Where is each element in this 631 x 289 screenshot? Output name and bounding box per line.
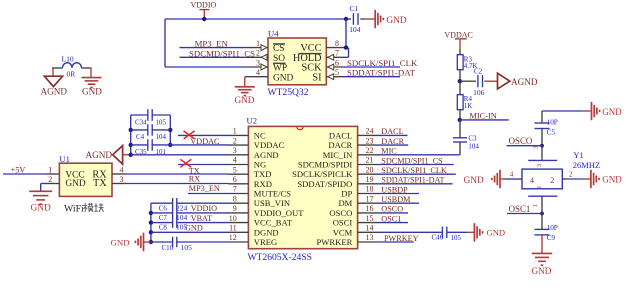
wire U2 pin 17 stub bbox=[358, 194, 378, 203]
capacitor C1 bbox=[346, 4, 361, 34]
svg-text:CS: CS bbox=[273, 44, 284, 54]
svg-text:VDDAC: VDDAC bbox=[254, 140, 285, 150]
wire U1 pin4 stub bbox=[112, 165, 126, 174]
capacitor C34 bbox=[131, 109, 171, 126]
svg-text:24: 24 bbox=[366, 127, 374, 136]
wire U2 pin 1 stub bbox=[229, 127, 249, 136]
svg-text:4: 4 bbox=[233, 156, 237, 165]
svg-text:105: 105 bbox=[451, 234, 462, 242]
wire VCM (pin14) to C46 bbox=[378, 231, 443, 233]
capacitor C6 (pin8) bbox=[151, 198, 229, 212]
svg-text:1: 1 bbox=[233, 127, 237, 136]
svg-text:GND: GND bbox=[235, 95, 255, 105]
ground GND (cap bank) bbox=[111, 233, 144, 252]
svg-text:DM: DM bbox=[338, 198, 352, 208]
svg-text:VDDAC: VDDAC bbox=[444, 30, 472, 39]
wire C2 to AGND bbox=[484, 80, 497, 82]
node SDCLK/SPI1_CLK net (pin 20) bbox=[378, 166, 456, 175]
svg-text:OSC1: OSC1 bbox=[509, 204, 531, 214]
svg-text:GND: GND bbox=[31, 204, 52, 214]
svg-text:MP3_EN: MP3_EN bbox=[195, 39, 229, 49]
wire cap bank right rail bbox=[168, 115, 172, 147]
power VDDIO bbox=[191, 0, 217, 19]
wire AGND to U2 pin3 bbox=[131, 154, 229, 156]
svg-text:20: 20 bbox=[366, 165, 374, 174]
wire U2 pin 10 stub bbox=[229, 214, 249, 223]
svg-text:DGND: DGND bbox=[254, 227, 279, 237]
node OSC1 net (pin 15) bbox=[378, 214, 409, 223]
ground GND (Y1 left) bbox=[464, 170, 501, 188]
svg-text:C10: C10 bbox=[162, 244, 174, 252]
wire U4 pin7 riser bbox=[344, 48, 349, 58]
svg-text:3: 3 bbox=[233, 146, 237, 155]
svg-text:VREG: VREG bbox=[254, 237, 277, 247]
resistor R3 bbox=[457, 55, 477, 70]
svg-text:WT2605X-24SS: WT2605X-24SS bbox=[248, 252, 313, 263]
svg-text:GND: GND bbox=[82, 87, 102, 97]
node VDDAC label (pin2) bbox=[190, 137, 220, 146]
svg-text:DP: DP bbox=[341, 189, 352, 199]
svg-text:AGND: AGND bbox=[86, 150, 113, 160]
wire U2 pin 5 stub bbox=[229, 165, 249, 174]
svg-text:5: 5 bbox=[335, 68, 339, 77]
node MIC-IN bbox=[458, 111, 509, 122]
wire U1.4 to U2.5 (TX) bbox=[126, 173, 229, 175]
power +5V bbox=[11, 165, 26, 174]
svg-text:104: 104 bbox=[468, 143, 479, 151]
wire R4 to MIC node bbox=[459, 110, 461, 120]
svg-text:8: 8 bbox=[335, 39, 339, 48]
svg-text:C2: C2 bbox=[474, 68, 483, 76]
wire U1.3 to U2.6 (RX) bbox=[126, 183, 229, 185]
svg-text:10: 10 bbox=[229, 214, 237, 223]
svg-text:18: 18 bbox=[366, 185, 374, 194]
wire VDDIO left leg to U4 pin3 bbox=[165, 19, 250, 67]
power VDDAC bbox=[444, 30, 472, 54]
node MIC net to C3 bbox=[378, 147, 461, 156]
svg-text:SDCMD/SPI1_CS: SDCMD/SPI1_CS bbox=[381, 156, 443, 165]
wire U4 pin 3 stub bbox=[250, 58, 268, 70]
svg-text:OSC1: OSC1 bbox=[381, 214, 401, 223]
svg-text:15: 15 bbox=[366, 214, 374, 223]
svg-text:GND: GND bbox=[185, 224, 203, 233]
wire U2 pin 16 stub bbox=[358, 204, 378, 213]
svg-text:C8: C8 bbox=[159, 224, 168, 232]
svg-text:Y1: Y1 bbox=[573, 150, 583, 160]
wire C1 to GND bbox=[360, 18, 374, 20]
svg-text:TXD: TXD bbox=[254, 169, 272, 179]
svg-text:C6: C6 bbox=[159, 204, 168, 212]
svg-text:VDDAC: VDDAC bbox=[190, 137, 220, 146]
node MP3_EN (U4 pin1) bbox=[180, 39, 251, 49]
svg-text:NG: NG bbox=[254, 160, 266, 170]
wire VDDIO rail bbox=[165, 18, 346, 20]
svg-text:VBAT: VBAT bbox=[191, 214, 212, 223]
wire U2 pin 23 stub bbox=[358, 136, 378, 145]
wire U1 pin3 stub bbox=[112, 175, 126, 184]
svg-text:3: 3 bbox=[120, 175, 124, 184]
node R3/R4/C2 bbox=[458, 79, 462, 83]
chip U1 designator bbox=[59, 154, 70, 164]
capacitor C10 (pin12) bbox=[151, 237, 229, 253]
svg-text:MIC-IN: MIC-IN bbox=[469, 111, 496, 120]
svg-text:7: 7 bbox=[233, 185, 237, 194]
wire U2 pin 22 stub bbox=[358, 146, 378, 155]
svg-text:21: 21 bbox=[366, 156, 374, 165]
svg-text:MIC: MIC bbox=[381, 147, 397, 156]
svg-text:GND: GND bbox=[464, 176, 485, 186]
svg-text:VCM: VCM bbox=[333, 227, 353, 237]
wire +5V to U1 pin1 bbox=[3, 173, 46, 175]
wire bank rail to GND bbox=[144, 241, 151, 243]
svg-text:6: 6 bbox=[233, 175, 237, 184]
svg-text:GND: GND bbox=[111, 237, 130, 247]
svg-text:1: 1 bbox=[536, 186, 543, 189]
wire C5 to GND bbox=[542, 110, 591, 112]
ground GND (U4) bbox=[235, 87, 255, 105]
svg-text:105: 105 bbox=[181, 243, 193, 252]
svg-text:MP3_EN: MP3_EN bbox=[189, 184, 220, 193]
capacitor C5 bbox=[535, 111, 558, 145]
wire U2 pin 12 stub bbox=[229, 233, 249, 242]
svg-text:3: 3 bbox=[533, 146, 540, 149]
wire U2 pin 20 stub bbox=[358, 165, 378, 174]
chip U4 body bbox=[268, 38, 326, 85]
svg-text:+5V: +5V bbox=[11, 165, 26, 174]
svg-text:GND: GND bbox=[487, 227, 506, 237]
svg-text:U2: U2 bbox=[247, 115, 258, 125]
wire U4 pin 4 stub bbox=[250, 68, 268, 77]
svg-text:TX: TX bbox=[93, 178, 107, 189]
svg-text:DACR: DACR bbox=[328, 140, 352, 150]
svg-text:VDDIO_OUT: VDDIO_OUT bbox=[254, 208, 304, 218]
node RX label (pin6) bbox=[189, 175, 200, 184]
wire U1 pin2 stub bbox=[41, 175, 60, 184]
node PWRKEY net (pin 13) bbox=[378, 234, 419, 243]
svg-text:WP: WP bbox=[273, 64, 287, 74]
wire U2 pin 3 stub bbox=[229, 146, 249, 155]
wire U2 pin 19 stub bbox=[358, 175, 378, 184]
wire U4 pin 7 stub bbox=[326, 49, 344, 61]
svg-text:C34: C34 bbox=[135, 118, 147, 126]
svg-text:DACL: DACL bbox=[381, 127, 403, 136]
svg-text:1: 1 bbox=[48, 165, 52, 174]
wire C6 bank rail bbox=[149, 203, 153, 244]
svg-text:GND: GND bbox=[386, 16, 406, 26]
node SDDAT/SPI1-DAT (U4 pin5) bbox=[344, 68, 416, 78]
chip U2 designator bbox=[247, 115, 258, 125]
svg-text:3: 3 bbox=[256, 58, 260, 67]
node VDDIO label (pin9) + capacitor C7 bbox=[151, 204, 229, 222]
wire U4 pin 8 stub bbox=[326, 39, 344, 48]
svg-text:105: 105 bbox=[156, 118, 167, 126]
svg-text:13: 13 bbox=[366, 233, 374, 242]
svg-text:SI: SI bbox=[312, 72, 322, 83]
svg-text:C1: C1 bbox=[350, 4, 359, 13]
wire U2 pin 14 stub bbox=[358, 224, 378, 233]
svg-text:DACR: DACR bbox=[381, 137, 404, 146]
svg-text:11: 11 bbox=[229, 224, 237, 233]
wire U2 pin 18 stub bbox=[358, 185, 378, 194]
wire U4 pin 6 stub bbox=[326, 58, 344, 70]
svg-text:GND: GND bbox=[65, 179, 86, 189]
capacitor C3 bbox=[453, 120, 479, 155]
svg-text:1K: 1K bbox=[464, 102, 473, 110]
node DACL net (pin 24) bbox=[378, 127, 408, 136]
wire U4 pin8 to VDDIO rail bbox=[344, 19, 348, 50]
node rail to U4 VCC bbox=[344, 17, 348, 21]
svg-text:16: 16 bbox=[366, 204, 374, 213]
node OSCO bbox=[507, 136, 544, 148]
svg-text:12: 12 bbox=[229, 233, 237, 242]
wire Y1 pin4 to GND bbox=[500, 171, 522, 180]
svg-text:4: 4 bbox=[510, 171, 514, 179]
svg-text:4: 4 bbox=[530, 176, 534, 185]
node USBDM net (pin 17) bbox=[378, 195, 420, 204]
svg-text:2: 2 bbox=[256, 49, 260, 58]
svg-text:10P: 10P bbox=[547, 224, 558, 232]
svg-text:SDCMD/SPI1_CS: SDCMD/SPI1_CS bbox=[189, 48, 255, 58]
svg-text:NC: NC bbox=[254, 130, 266, 140]
op-amp U4 designator bbox=[268, 29, 279, 39]
svg-text:C3: C3 bbox=[468, 135, 477, 143]
svg-text:224: 224 bbox=[176, 203, 188, 212]
capacitor C2 bbox=[460, 68, 485, 98]
svg-text:VDDIO: VDDIO bbox=[191, 204, 217, 213]
svg-text:1: 1 bbox=[532, 204, 539, 207]
wire cap bank left rail bbox=[129, 115, 133, 157]
svg-text:AGND: AGND bbox=[41, 87, 68, 97]
wire U4 pin 1 stub bbox=[250, 39, 268, 51]
svg-text:7: 7 bbox=[335, 49, 339, 58]
svg-text:GND: GND bbox=[273, 73, 294, 83]
wire C35 to U2 pin2 (VDDAC) bbox=[153, 144, 229, 146]
svg-text:14: 14 bbox=[366, 224, 374, 233]
ground AGND (left of L10) bbox=[41, 76, 68, 96]
ground GND (C46) bbox=[474, 223, 505, 242]
crystal Y1 bbox=[522, 146, 600, 214]
svg-text:VCC_BAT: VCC_BAT bbox=[254, 218, 293, 228]
node SDCMD/SPI1_CS net (pin 21) bbox=[378, 156, 454, 165]
wire U4 pin4 to ground bbox=[245, 77, 250, 87]
node TX label (pin5) bbox=[189, 166, 200, 175]
wire C46 to GND bbox=[468, 231, 474, 233]
svg-text:C9: C9 bbox=[547, 234, 556, 242]
node VBAT label (pin10) + capacitor C8 bbox=[151, 214, 229, 232]
svg-text:19: 19 bbox=[366, 175, 374, 184]
svg-text:OSCO: OSCO bbox=[381, 205, 403, 214]
svg-text:WiFi: WiFi bbox=[64, 203, 84, 214]
svg-text:0R: 0R bbox=[67, 70, 76, 79]
svg-text:SDDAT/SPIDO: SDDAT/SPIDO bbox=[297, 179, 352, 189]
svg-text:1: 1 bbox=[256, 39, 260, 48]
svg-text:VDDIO: VDDIO bbox=[191, 0, 217, 9]
svg-text:MUTE/CS: MUTE/CS bbox=[254, 189, 291, 199]
svg-text:AGND: AGND bbox=[511, 77, 538, 87]
svg-text:OSCI: OSCI bbox=[333, 218, 353, 228]
wire U2 pin 8 stub bbox=[229, 194, 249, 203]
inductor L10 bbox=[52, 55, 91, 79]
capacitor C35 bbox=[131, 139, 167, 156]
wire Y1 pin2 to GND bbox=[562, 170, 590, 179]
wire U2 pin 24 stub bbox=[358, 127, 378, 136]
wire U2 pin 11 stub bbox=[229, 224, 249, 233]
wire U2 pin 7 stub bbox=[229, 185, 249, 194]
node OSC1 bbox=[507, 204, 544, 215]
svg-text:2: 2 bbox=[550, 176, 554, 185]
node SDCMD/SPI1_CS (U4 pin2) bbox=[180, 48, 256, 58]
wire U4 pin 5 stub bbox=[326, 68, 344, 80]
svg-text:GND: GND bbox=[602, 107, 622, 117]
svg-text:2: 2 bbox=[233, 136, 237, 145]
wire U2 pin 4 stub bbox=[229, 156, 249, 165]
svg-text:C46: C46 bbox=[432, 234, 444, 242]
svg-text:C7: C7 bbox=[159, 214, 168, 222]
svg-text:5: 5 bbox=[233, 165, 237, 174]
svg-text:4: 4 bbox=[120, 165, 124, 174]
svg-text:23: 23 bbox=[366, 136, 374, 145]
node MP3_EN (pin7) bbox=[188, 184, 229, 194]
wire U2 pin 21 stub bbox=[358, 156, 378, 165]
resistor R4 bbox=[457, 81, 472, 110]
svg-text:22: 22 bbox=[366, 146, 374, 155]
svg-text:SDDAT/SPI1-DAT: SDDAT/SPI1-DAT bbox=[347, 68, 416, 78]
node NC X (pin1) bbox=[178, 131, 229, 139]
capacitor C4 bbox=[131, 124, 171, 141]
wire U2 pin 15 stub bbox=[358, 214, 378, 223]
svg-text:PWRKER: PWRKER bbox=[316, 237, 352, 247]
svg-text:SDDAT/SPI1-DAT: SDDAT/SPI1-DAT bbox=[381, 176, 444, 185]
wire AGND to rail bbox=[123, 154, 131, 156]
ground AGND (near U1) bbox=[86, 146, 123, 165]
svg-text:3: 3 bbox=[536, 164, 543, 167]
capacitor C46 bbox=[432, 227, 468, 242]
svg-text:104: 104 bbox=[349, 25, 361, 34]
wire L10 right lead down bbox=[90, 67, 92, 77]
svg-text:AGND: AGND bbox=[254, 150, 279, 160]
svg-text:DACL: DACL bbox=[329, 130, 352, 140]
ground GND (right of L10) bbox=[82, 78, 103, 97]
svg-text:C4: C4 bbox=[136, 133, 145, 141]
svg-text:GND: GND bbox=[602, 175, 622, 185]
wire U2 pin 6 stub bbox=[229, 175, 249, 184]
svg-text:10P: 10P bbox=[547, 118, 558, 126]
svg-text:104: 104 bbox=[156, 133, 167, 141]
ground GND (C9) bbox=[532, 253, 553, 276]
svg-text:SDCMD/SPIDI: SDCMD/SPIDI bbox=[298, 160, 353, 170]
node SDCLK/SPI1_CLK (U4 pin6) bbox=[344, 58, 418, 68]
svg-text:26MHZ: 26MHZ bbox=[573, 160, 600, 170]
svg-text:USBDP: USBDP bbox=[381, 185, 408, 194]
svg-text:8: 8 bbox=[233, 194, 237, 203]
wire U4 pin 2 stub bbox=[250, 49, 268, 61]
wire L10 left lead down bbox=[52, 67, 54, 76]
svg-text:SO: SO bbox=[273, 54, 285, 64]
svg-text:SDCLK/SPI1_CLK: SDCLK/SPI1_CLK bbox=[381, 166, 447, 175]
capacitor C9 bbox=[535, 214, 558, 243]
svg-text:2: 2 bbox=[48, 175, 52, 184]
label WT2605X-24SS bbox=[248, 252, 313, 263]
wire U2 pin 2 stub bbox=[229, 136, 249, 145]
svg-text:USB_VIN: USB_VIN bbox=[254, 198, 291, 208]
chip U2 body bbox=[248, 126, 357, 248]
node USBDP net (pin 18) bbox=[378, 185, 420, 194]
node DACR net (pin 23) bbox=[378, 137, 409, 146]
node GND label (pin11) bbox=[151, 224, 229, 233]
wire C9 to GND bbox=[541, 235, 543, 254]
svg-text:9: 9 bbox=[233, 204, 237, 213]
ground GND (U1) bbox=[29, 191, 52, 213]
svg-text:OSCO: OSCO bbox=[329, 208, 352, 218]
node NG X (pin4) bbox=[178, 159, 229, 167]
chip U1 body bbox=[59, 163, 112, 196]
svg-text:USBDM: USBDM bbox=[381, 195, 411, 204]
svg-text:PWRKEY: PWRKEY bbox=[384, 234, 419, 243]
svg-text:106: 106 bbox=[473, 88, 485, 97]
svg-text:OSCO: OSCO bbox=[509, 136, 533, 146]
node SDDAT/SPI1-DAT net (pin 19) bbox=[378, 176, 453, 185]
svg-text:MIC_IN: MIC_IN bbox=[323, 150, 353, 160]
node OSCO net (pin 16) bbox=[378, 205, 409, 214]
wire U2 pin 9 stub bbox=[229, 204, 249, 213]
label WIFI module bbox=[64, 203, 104, 215]
label WT25Q32 bbox=[268, 87, 309, 98]
svg-text:6: 6 bbox=[335, 58, 339, 67]
svg-text:104: 104 bbox=[176, 213, 188, 222]
ground GND (C5) bbox=[592, 102, 623, 120]
svg-text:C5: C5 bbox=[547, 128, 556, 136]
svg-text:U4: U4 bbox=[268, 29, 279, 39]
svg-text:WT25Q32: WT25Q32 bbox=[268, 87, 309, 98]
node VDDIO rail junction bbox=[202, 17, 206, 21]
svg-text:RXD: RXD bbox=[254, 179, 272, 189]
ground GND (Y1 right) bbox=[591, 170, 622, 188]
svg-text:4: 4 bbox=[256, 68, 260, 77]
svg-text:17: 17 bbox=[366, 194, 374, 203]
svg-text:2: 2 bbox=[569, 170, 573, 178]
ground GND (C1) bbox=[375, 10, 407, 28]
wire U2 pin 13 stub bbox=[358, 233, 378, 242]
wire R3 to node bbox=[459, 70, 461, 82]
wire U1 pin1 stub bbox=[46, 165, 59, 174]
svg-text:SDCLK/SPI1_CLK: SDCLK/SPI1_CLK bbox=[347, 58, 418, 68]
svg-text:RX: RX bbox=[189, 175, 200, 184]
wire U1 pin2 to GND bbox=[40, 184, 42, 192]
ground AGND (C2) bbox=[498, 73, 538, 89]
svg-text:SDCLK/SPICLK: SDCLK/SPICLK bbox=[292, 169, 353, 179]
svg-text:GND: GND bbox=[532, 266, 552, 276]
